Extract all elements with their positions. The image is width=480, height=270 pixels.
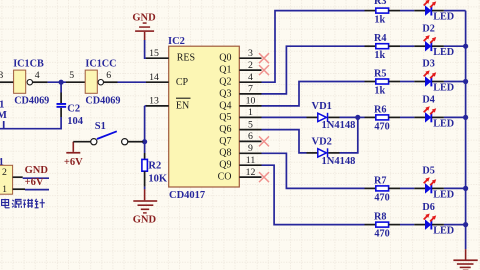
svg-text:12: 12: [246, 167, 256, 178]
svg-text:IC1CC: IC1CC: [85, 58, 116, 69]
wire Q6 to VD2: [262, 130, 307, 153]
svg-text:11: 11: [246, 155, 256, 166]
svg-text:Q9: Q9: [219, 160, 231, 171]
inverter IC1CB: [13, 58, 49, 106]
svg-text:6: 6: [248, 131, 253, 142]
svg-text:1k: 1k: [374, 50, 385, 61]
no-connect X pin 2: [259, 65, 269, 75]
svg-text:Q0: Q0: [219, 53, 231, 64]
svg-text:IC2: IC2: [168, 36, 185, 47]
svg-text:GND: GND: [25, 165, 49, 176]
svg-text:R5: R5: [374, 69, 386, 80]
svg-text:R2: R2: [148, 161, 161, 172]
svg-text:CD4017: CD4017: [169, 190, 205, 201]
wire R7 to D5: [400, 187, 414, 189]
junction bus y224: [463, 222, 468, 227]
wire Q2 to R3 row: [262, 11, 365, 83]
svg-text:R3: R3: [374, 0, 386, 7]
wire node to C2: [60, 82, 62, 92]
wire EN down to S1 and R2: [145, 106, 146, 153]
capacitor C2: [57, 93, 84, 127]
pin 4 stub: [239, 72, 261, 83]
wire IC1CC out to CP: [118, 81, 147, 83]
resistor R6: [365, 104, 401, 132]
IC2 output pin names: [218, 53, 232, 183]
svg-text:RES: RES: [177, 53, 195, 64]
wire C2 to R1: [0, 117, 61, 129]
diode VD2 1N4148: [307, 136, 356, 166]
svg-text:3: 3: [248, 48, 253, 59]
wire D1 to bus: [444, 10, 466, 12]
svg-text:5: 5: [69, 70, 74, 81]
svg-text:1k: 1k: [374, 15, 385, 26]
svg-text:4: 4: [248, 72, 253, 83]
junction VD node: [355, 115, 360, 120]
text power header label: [2, 199, 45, 208]
svg-text:LED: LED: [433, 12, 454, 23]
resistor R8: [365, 212, 401, 240]
svg-text:10: 10: [246, 96, 256, 107]
wire D6 to bus: [444, 224, 466, 226]
svg-text:9: 9: [248, 143, 253, 154]
svg-text:+6V: +6V: [64, 157, 83, 168]
pin 14 CP: [146, 72, 169, 83]
svg-text:VD2: VD2: [312, 136, 332, 147]
junction bus y117: [463, 115, 468, 120]
svg-text:LED: LED: [433, 118, 454, 129]
resistor R3: [365, 0, 401, 26]
svg-text:LED: LED: [433, 189, 454, 200]
svg-text:7: 7: [248, 84, 253, 95]
svg-text:Q8: Q8: [219, 148, 231, 159]
pin 6 stub: [239, 131, 261, 142]
wire +6V net J1: [25, 189, 49, 191]
resistor R2: [142, 153, 168, 187]
junction bus y46: [463, 44, 468, 49]
pin 2 stub: [239, 60, 261, 71]
svg-text:R8: R8: [374, 212, 386, 223]
inverter IC1CC: [85, 58, 120, 106]
svg-text:C2: C2: [67, 103, 80, 114]
wire R2 to GND: [144, 187, 146, 190]
wire R3 to D1: [400, 10, 414, 12]
svg-text:LED: LED: [433, 226, 454, 237]
svg-text:CD4069: CD4069: [14, 96, 49, 107]
LED D1: [414, 0, 454, 23]
svg-text:Q4: Q4: [219, 100, 231, 111]
wire D4 to bus: [444, 116, 466, 118]
pin 5 stub: [239, 119, 261, 130]
pin 15 RES: [146, 48, 169, 59]
wire R4 to D2: [400, 45, 414, 47]
svg-text:Q5: Q5: [219, 112, 231, 123]
wire input to IC1CB: [0, 81, 14, 83]
wire Q5 to VD1: [262, 116, 307, 118]
svg-text:D4: D4: [422, 95, 434, 106]
junction S1 node: [142, 139, 147, 144]
svg-text:S1: S1: [95, 121, 106, 132]
pin 4 of IC1CB: [33, 81, 48, 83]
svg-text:470: 470: [374, 121, 389, 132]
power port +6V at S1: [64, 142, 83, 168]
pin 9 stub: [239, 143, 261, 154]
svg-text:D2: D2: [422, 23, 434, 34]
LED D2: [414, 23, 454, 58]
LED D6: [414, 202, 454, 237]
diode VD1 1N4148: [307, 101, 356, 131]
junction C2 node: [59, 80, 64, 85]
svg-text:D6: D6: [422, 202, 434, 213]
pin 6 of IC1CC: [104, 81, 118, 83]
svg-text:470: 470: [374, 229, 389, 240]
svg-text:104: 104: [67, 116, 84, 127]
LED D3: [414, 59, 454, 94]
ground GND bottom: [133, 189, 157, 225]
svg-text:R1: R1: [0, 100, 4, 111]
junction bus y188: [463, 186, 468, 191]
resistor R1 label (clipped at edge): [0, 100, 7, 129]
ground right: [453, 249, 477, 270]
pin 1 of J1: [13, 188, 25, 190]
pin 1 stub: [239, 107, 261, 118]
svg-text:470: 470: [374, 192, 389, 203]
svg-text:EN: EN: [176, 101, 189, 112]
wire GND to RES pin 15: [145, 40, 146, 58]
wire IC1CB out to node: [48, 81, 66, 83]
svg-text:4: 4: [35, 70, 40, 81]
svg-text:R4: R4: [374, 33, 386, 44]
pin 13 EN: [146, 96, 169, 107]
svg-text:1: 1: [2, 184, 7, 195]
svg-text:3: 3: [0, 70, 3, 81]
pin 7 stub: [239, 84, 261, 95]
svg-text:LED: LED: [433, 47, 454, 58]
wire Q8 to R7 row: [262, 153, 365, 188]
svg-text:R6: R6: [374, 104, 386, 115]
pin 11 stub: [239, 155, 261, 166]
wire Q4 to R5 row: [262, 82, 365, 106]
svg-text:2: 2: [248, 60, 253, 71]
svg-text:13: 13: [149, 96, 159, 107]
op-amp U1 IC2 CD4017 body: [168, 36, 239, 201]
LED D5: [414, 166, 454, 201]
svg-text:1: 1: [248, 107, 253, 118]
svg-text:1M: 1M: [0, 110, 7, 121]
svg-text:1N4148: 1N4148: [322, 156, 356, 167]
svg-text:Q1: Q1: [219, 65, 231, 76]
svg-text:2: 2: [2, 167, 7, 178]
wire D5 to bus: [444, 187, 466, 189]
svg-text:GND: GND: [132, 12, 156, 23]
svg-text:CD4069: CD4069: [85, 96, 120, 107]
svg-text:Q2: Q2: [219, 77, 231, 88]
wire GND net J1: [23, 177, 49, 179]
pin 12 stub: [239, 167, 261, 178]
svg-text:1k: 1k: [374, 86, 385, 97]
no-connect X pin 12: [259, 172, 269, 182]
pin 5 of IC1CC: [66, 81, 85, 83]
svg-text:15: 15: [149, 48, 159, 59]
svg-text:5: 5: [248, 119, 253, 130]
svg-text:14: 14: [149, 72, 159, 83]
no-connect X pin 3: [259, 53, 269, 63]
wire VD1 to junction: [340, 116, 358, 118]
pin 10 stub: [239, 96, 261, 107]
svg-text:VD1: VD1: [312, 101, 332, 112]
pin 3 stub: [239, 48, 261, 59]
wire Q9 to R8 row: [262, 165, 365, 224]
svg-text:GND: GND: [133, 215, 157, 226]
svg-text:10K: 10K: [148, 173, 168, 184]
connector J1: [0, 157, 13, 195]
svg-text:LED: LED: [433, 82, 454, 93]
pin 2 of J1: [13, 176, 23, 178]
wire R5 to D3: [400, 81, 414, 83]
svg-text:CP: CP: [176, 77, 189, 88]
wire R8 to D6: [400, 224, 414, 226]
wire R6 to D4: [400, 116, 414, 118]
LED D4: [414, 95, 454, 130]
wire Q3 to R4 row: [262, 46, 365, 94]
wire cathode bus: [465, 11, 467, 250]
resistor R7: [365, 175, 401, 203]
resistor R5: [365, 69, 401, 97]
wire D2 to bus: [444, 45, 466, 47]
svg-text:Q6: Q6: [219, 124, 231, 135]
svg-text:+6V: +6V: [25, 177, 44, 188]
wire D3 to bus: [444, 81, 466, 83]
wire junction to R6: [358, 116, 365, 118]
junction bus y81: [463, 79, 468, 84]
resistor R4: [365, 33, 401, 61]
svg-text:CO: CO: [218, 172, 232, 183]
svg-text:6: 6: [106, 70, 111, 81]
svg-text:Q3: Q3: [219, 88, 231, 99]
no-connect X pin 6: [259, 136, 269, 146]
svg-text:R7: R7: [374, 175, 386, 186]
wire VD2 up to junction: [340, 117, 358, 152]
power port GND top: [132, 12, 156, 40]
svg-text:1N4148: 1N4148: [322, 120, 356, 131]
svg-text:D3: D3: [422, 59, 434, 70]
svg-text:D5: D5: [422, 166, 434, 177]
svg-text:IC1CB: IC1CB: [13, 58, 44, 69]
svg-text:Q7: Q7: [219, 136, 231, 147]
switch S1: [73, 121, 143, 145]
